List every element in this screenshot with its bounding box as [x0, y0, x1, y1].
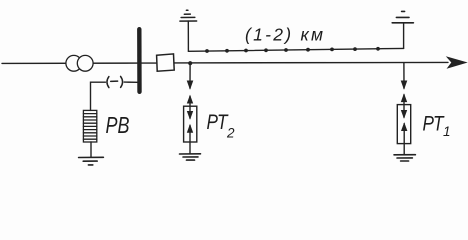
arrowhead of feeder line	[447, 57, 466, 68]
wire main feeder line	[2, 62, 448, 63]
wire from busbar to arrester gap	[91, 82, 138, 110]
label (1-2) km	[245, 25, 323, 45]
svg-text:2: 2	[226, 126, 235, 141]
node junction on feeder	[188, 61, 192, 65]
ground below PT1	[394, 155, 415, 161]
label PB	[106, 112, 130, 138]
tube arrester PT1 body	[397, 105, 410, 144]
spark gap ( - ) of PB arrester	[107, 76, 123, 87]
svg-text:РТ: РТ	[207, 110, 229, 134]
svg-text:(1-2) км: (1-2) км	[245, 25, 323, 45]
ground top-left (inverted)	[180, 10, 197, 21]
ground top-right (inverted)	[392, 11, 413, 22]
label PT1	[423, 111, 451, 139]
wire PT1 lower electrode to ground	[402, 123, 407, 154]
busbar	[137, 29, 142, 92]
ground below PT2	[180, 154, 201, 160]
wire feeder to PT1 with gap arrows	[401, 63, 407, 118]
wire stem from top-left ground	[187, 21, 189, 51]
ground below PB	[79, 157, 104, 165]
svg-text:РТ: РТ	[423, 111, 445, 135]
switch box Q	[157, 54, 175, 71]
svg-text:1: 1	[443, 124, 451, 139]
overhead line span (1-2 km) with insulator dots	[188, 47, 403, 53]
wire PB to ground	[90, 142, 92, 157]
wire node to PT2 with gap arrows	[187, 63, 193, 119]
tube arrester PT2 body	[184, 106, 197, 142]
wire stem to top-right ground	[403, 23, 405, 48]
svg-text:РВ: РВ	[106, 112, 130, 138]
transformer T	[66, 55, 93, 71]
label PT2	[207, 110, 236, 141]
valve arrester PB body	[83, 110, 96, 142]
wire PT2 lower electrode to ground	[187, 125, 192, 154]
